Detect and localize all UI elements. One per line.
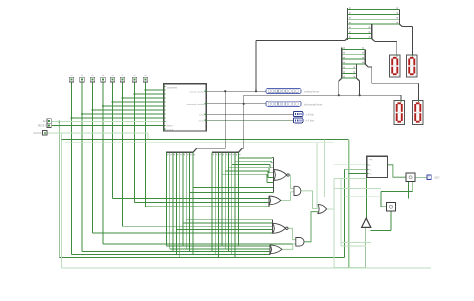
svg-text:h 4 bits: h 4 bits [306,119,315,123]
svg-text:h bits: h bits [199,119,205,122]
svg-text:en: en [370,169,372,171]
svg-text:LED: LED [434,175,439,179]
svg-text:vertical timer: vertical timer [304,90,319,94]
svg-text:vertical counter: vertical counter [189,90,204,93]
svg-text:horizontal timer: horizontal timer [304,103,322,107]
svg-text:horizontal counter: horizontal counter [187,103,205,106]
svg-text:CLOCK: CLOCK [33,132,42,135]
svg-text:CLOCK: CLOCK [166,129,174,131]
svg-text:v 4 bits: v 4 bits [306,112,315,116]
svg-text:counters: counters [167,85,178,89]
svg-text:RESET: RESET [166,126,173,128]
svg-text:ck: ck [370,174,372,176]
svg-text:RESET: RESET [38,125,47,128]
